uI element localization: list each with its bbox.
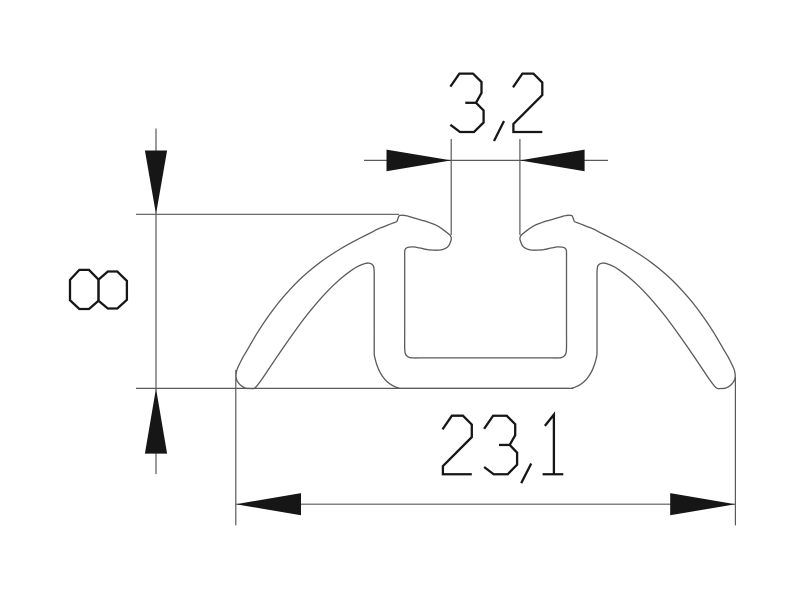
arrow 8 bottom xyxy=(145,388,167,453)
arrow 3,2 left xyxy=(387,150,452,172)
dim 8 extension line top xyxy=(136,213,399,215)
text 23,1 digit 2 xyxy=(443,416,472,475)
profile outline xyxy=(236,215,735,389)
arrow 3,2 right xyxy=(520,150,585,172)
text 23,1 comma xyxy=(521,464,531,484)
text 8 (rotated) lobe B xyxy=(99,272,127,309)
arrow 8 top xyxy=(145,151,167,215)
text 3,2 comma xyxy=(494,121,504,141)
text 23,1 digit 3 xyxy=(484,416,517,475)
text 8 (rotated) lobe A xyxy=(70,270,99,309)
dim 23,1 extension line right xyxy=(734,377,736,525)
dim 3,2 extension line right xyxy=(519,139,521,235)
dim 3,2 extension line left xyxy=(450,139,452,235)
dim 23,1 extension line left xyxy=(235,370,237,525)
arrow 23,1 left xyxy=(236,493,301,515)
dim 23,1 dimension line xyxy=(236,503,736,505)
dim 3,2 dimension line xyxy=(364,159,608,161)
dim 8 extension line bottom xyxy=(136,387,569,389)
arrow 23,1 right xyxy=(670,493,735,515)
text 3,2 digit 3 xyxy=(450,74,483,132)
dim 8 dimension line xyxy=(155,129,157,475)
text 3,2 digit 2 xyxy=(513,74,542,132)
text 23,1 digit 1 xyxy=(545,415,554,475)
